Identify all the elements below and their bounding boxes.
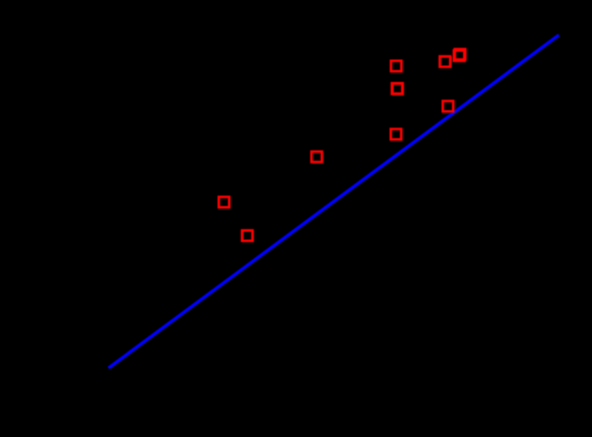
data point marker 3b overlap <box>454 50 464 60</box>
data point marker 2 <box>440 56 450 66</box>
data point marker 9 <box>242 230 252 240</box>
fit line (blue) <box>109 35 559 368</box>
data point marker 7 <box>312 152 322 162</box>
data point marker 8 <box>219 197 229 207</box>
data point marker 3 (double) <box>455 49 465 59</box>
data point marker 6 <box>391 129 401 139</box>
data point marker 5 <box>443 101 453 111</box>
data point marker 1 <box>391 61 401 71</box>
data point marker 4 (bold) <box>392 83 402 93</box>
